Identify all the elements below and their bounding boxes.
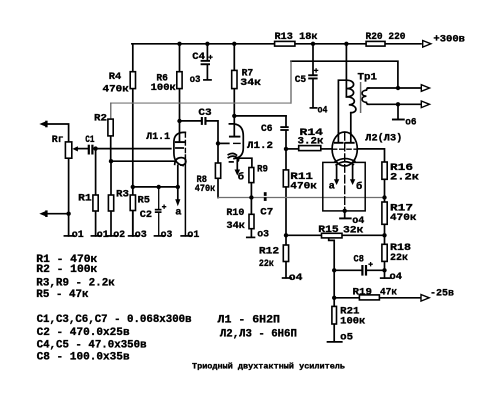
svg-text:C3: C3 [198,107,211,119]
svg-text:Л2,Л3 - 6Н6П: Л2,Л3 - 6Н6П [220,328,297,340]
svg-text:47к: 47к [380,286,397,298]
svg-text:C2 - 470.0х25в: C2 - 470.0х25в [37,327,130,339]
svg-text:R3: R3 [116,188,129,200]
svg-text:R5: R5 [138,194,151,206]
svg-text:C4: C4 [192,51,205,63]
svg-text:о4: о4 [390,271,403,283]
svg-text:R4: R4 [109,71,122,83]
svg-text:Тр1: Тр1 [358,72,378,84]
svg-text:а: а [175,206,181,218]
svg-text:470к: 470к [290,180,317,192]
svg-text:470к: 470к [195,183,216,195]
svg-text:Rг: Rг [52,134,64,146]
svg-text:+300в: +300в [433,33,465,45]
svg-text:C6: C6 [261,123,273,135]
svg-text:C8 - 100.0х35в: C8 - 100.0х35в [37,352,130,364]
svg-text:R12: R12 [259,245,279,257]
svg-text:C5: C5 [295,74,307,86]
svg-text:о2: о2 [113,229,125,241]
svg-text:100к: 100к [151,82,176,94]
svg-text:22к: 22к [259,258,274,270]
svg-text:C1: C1 [85,134,94,146]
svg-text:C7: C7 [260,206,273,218]
svg-text:о1: о1 [72,229,84,241]
svg-text:-25в: -25в [430,287,454,299]
svg-text:о1: о1 [187,229,199,241]
svg-text:о3: о3 [161,229,173,241]
svg-text:R10: R10 [226,207,244,219]
svg-text:R9: R9 [257,163,268,175]
svg-text:3.2к: 3.2к [298,136,324,148]
svg-text:C8: C8 [354,253,364,265]
svg-text:R2: R2 [94,112,107,124]
svg-text:о4: о4 [318,104,328,116]
svg-text:о4: о4 [289,272,303,284]
svg-text:R20 220: R20 220 [366,31,406,43]
svg-text:Л1.1: Л1.1 [146,131,170,143]
svg-text:22к: 22к [390,252,408,264]
svg-text:о1: о1 [97,229,109,241]
svg-text:о5: о5 [340,331,353,343]
svg-text:R3,R9 - 2.2к: R3,R9 - 2.2к [36,278,115,290]
svg-text:34к: 34к [240,77,261,89]
svg-text:100к: 100к [340,316,365,328]
svg-text:C2: C2 [140,209,152,221]
svg-text:б: б [238,171,244,184]
svg-text:R13 18к: R13 18к [275,31,318,43]
svg-text:R15: R15 [318,224,338,236]
svg-text:R2 - 100к: R2 - 100к [36,264,98,276]
svg-text:б: б [356,180,362,193]
svg-text:470к: 470к [103,83,129,95]
svg-text:2.2к: 2.2к [390,171,419,183]
svg-text:а: а [329,180,335,192]
svg-text:о6: о6 [405,117,416,129]
svg-text:R5 - 47к: R5 - 47к [36,289,89,301]
svg-text:R1: R1 [78,193,92,205]
svg-text:о3: о3 [257,229,269,241]
svg-text:C4,C5 - 47.0х350в: C4,C5 - 47.0х350в [37,339,147,351]
svg-text:о3: о3 [190,74,201,86]
svg-text:470к: 470к [390,212,417,224]
svg-text:34к: 34к [226,220,245,232]
svg-text:о3: о3 [135,229,147,241]
svg-text:C1,C3,C6,C7 - 0.068х300в: C1,C3,C6,C7 - 0.068х300в [37,314,192,326]
svg-text:Л1.2: Л1.2 [247,140,273,152]
svg-text:Л1 - 6Н2П: Л1 - 6Н2П [218,314,281,326]
svg-text:Л2(Л3): Л2(Л3) [365,132,402,144]
svg-text:о4: о4 [352,215,364,227]
svg-text:Триодный двухтактный усилитель: Триодный двухтактный усилитель [192,361,345,371]
svg-text:R19: R19 [353,286,373,298]
